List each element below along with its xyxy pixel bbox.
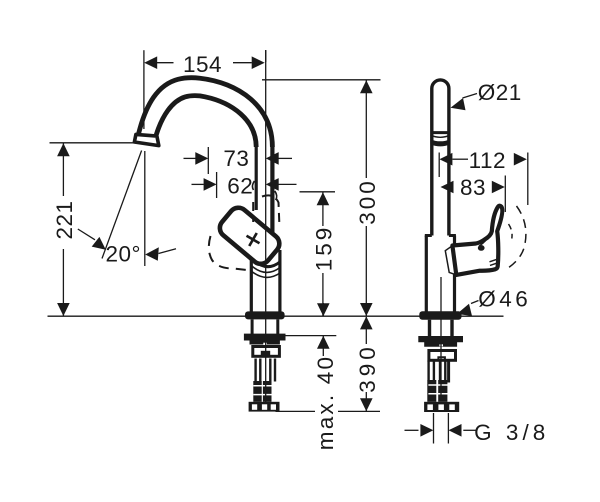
riser pipe left edge (255, 145, 258, 210)
hose braid blocks (253, 381, 261, 402)
390 arrows (360, 316, 373, 329)
svg-text:G 3/8: G 3/8 (474, 420, 549, 445)
svg-text:390: 390 (355, 343, 380, 393)
pipe break band (430, 139, 450, 146)
dim 300 top extension (262, 79, 381, 81)
dim 83 extension (504, 176, 506, 213)
dim 112 leaders (453, 158, 469, 160)
svg-text:Ø46: Ø46 (478, 286, 531, 311)
right hoses (429, 360, 449, 382)
hose end block (249, 402, 280, 412)
83 arrows (441, 181, 454, 194)
dashed handle raised position (253, 195, 279, 227)
svg-text:max. 40: max. 40 (313, 355, 338, 450)
O46 arrow (457, 304, 472, 316)
pipe capsule (432, 80, 449, 236)
body right edge (278, 250, 281, 313)
handle joint line (479, 234, 491, 247)
spout arc inner (156, 96, 256, 147)
handle lever (front view) (216, 204, 283, 268)
dim 159 top extension (300, 191, 336, 193)
svg-text:Ø21: Ø21 (478, 80, 522, 105)
svg-text:112: 112 (469, 148, 506, 173)
handle side view (452, 206, 502, 275)
20 degree vertical line (144, 151, 146, 266)
dim 221 top extension (50, 142, 137, 144)
base flange (245, 311, 285, 319)
max40 line (322, 303, 324, 316)
max40 bottom reference (286, 335, 337, 337)
right braid blocks (427, 380, 436, 402)
pipe break arc (431, 135, 451, 137)
G38 arrows (420, 424, 433, 437)
dim 154 leaders (157, 62, 174, 64)
aerator (134, 134, 158, 145)
20deg leader arrows (92, 237, 106, 250)
leader O46 (471, 301, 479, 304)
plus mark (243, 229, 263, 249)
dim 112 extensions (438, 153, 440, 178)
spout arc outer (139, 78, 273, 147)
body shoulders (425, 234, 432, 237)
73 arrows (195, 152, 208, 165)
svg-text:20°: 20° (106, 241, 142, 266)
112 arrows (439, 153, 452, 166)
dim 154 extension lines (143, 50, 145, 129)
body edges (425, 236, 428, 313)
20 degree slant line (102, 151, 142, 259)
svg-text:73: 73 (223, 146, 249, 171)
pipe break cut line (431, 131, 451, 134)
20 deg left leader (78, 229, 95, 240)
body left edge (250, 258, 253, 313)
300 arrows (360, 80, 373, 93)
speed lines (490, 260, 497, 262)
body cartridge arcs (253, 259, 281, 267)
svg-text:154: 154 (183, 52, 222, 77)
dim 159 line (322, 192, 324, 226)
154 arrows (144, 56, 157, 69)
svg-text:83: 83 (460, 175, 486, 200)
mounting nut (244, 334, 286, 345)
dim 62 extension (216, 172, 218, 198)
shank below flange (251, 319, 254, 334)
box tab (261, 351, 270, 357)
dim 221 line (62, 143, 64, 196)
svg-text:221: 221 (52, 200, 77, 239)
G38 leaders (405, 429, 419, 431)
221 arrows (57, 143, 70, 156)
O21 arrow (451, 98, 466, 110)
dim 73 extension (207, 147, 209, 174)
centre line right view (440, 277, 442, 401)
leader O21 (463, 94, 478, 99)
ext G38 (433, 413, 435, 444)
max40 bottom arrow (317, 336, 330, 349)
hose lines (256, 359, 275, 382)
svg-text:300: 300 (355, 178, 380, 225)
right shank (428, 320, 431, 337)
centre line left view (265, 50, 267, 402)
riser pipe right edge (270, 145, 274, 240)
159 arrows (317, 192, 330, 205)
dim 390 line (365, 317, 367, 344)
dashed handle lowered position (209, 236, 247, 270)
right nut (418, 336, 463, 347)
right flange (419, 311, 461, 319)
pipe break hooks (252, 181, 254, 190)
dashed swing arc outer (508, 206, 526, 268)
deck line (48, 315, 504, 317)
dim 300 line (365, 80, 367, 178)
svg-text:62: 62 (227, 174, 253, 199)
right hose end block (424, 402, 459, 412)
right cartridge box (429, 351, 456, 361)
20 deg right leader (159, 249, 177, 254)
dashed swing arc inner (509, 224, 513, 239)
handle side wedge (445, 246, 456, 275)
cartridge box (253, 347, 280, 357)
dim 390 bottom reference (276, 410, 316, 412)
svg-text:159: 159 (311, 225, 336, 272)
dim 73 leaders (184, 157, 196, 159)
pivot dot (478, 245, 485, 251)
62 arrows (204, 178, 217, 191)
dim 62 leaders (192, 183, 204, 185)
